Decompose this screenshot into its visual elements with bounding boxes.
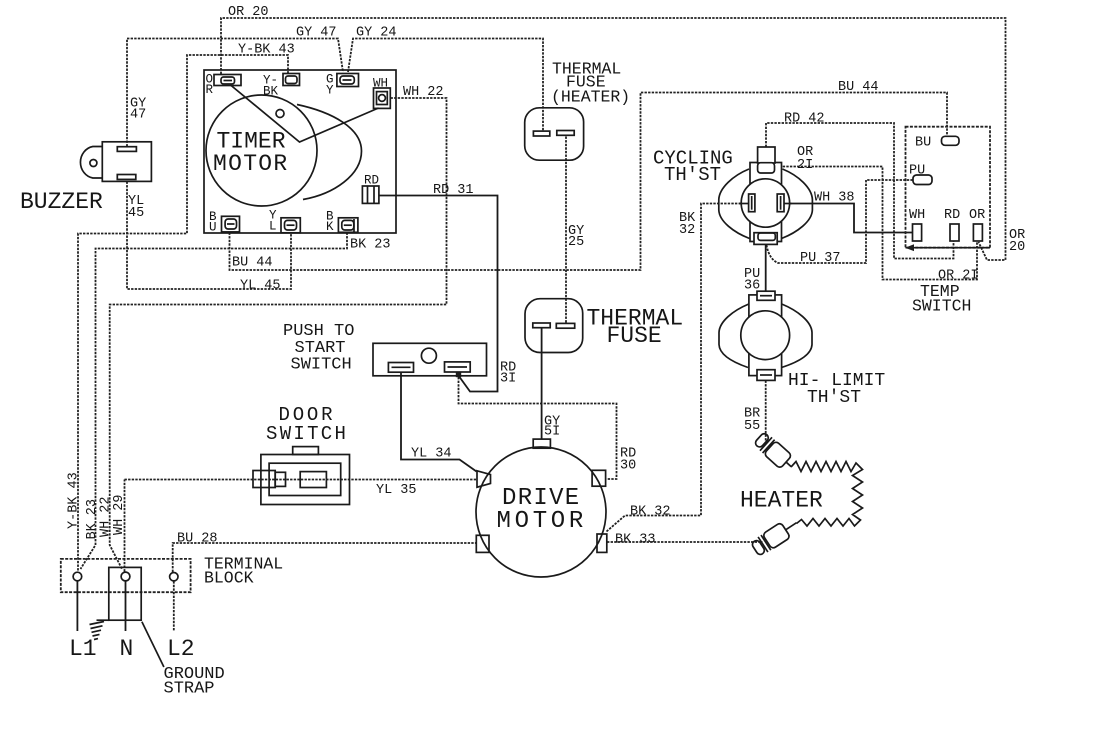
temp switch box bottom edge: [906, 247, 991, 249]
timer lever pivot contact: [276, 110, 284, 118]
wire Y-BK 43: [78, 55, 288, 572]
svg-text:L: L: [269, 220, 277, 234]
svg-text:YL 45: YL 45: [240, 279, 281, 294]
svg-text:HEATER: HEATER: [740, 488, 823, 514]
wire YL 45: [127, 182, 291, 290]
wire PU 36: [765, 245, 767, 291]
terminal N circle: [121, 572, 130, 581]
wire OR 21: [776, 167, 978, 280]
svg-text:25: 25: [568, 235, 584, 250]
svg-text:WH: WH: [373, 77, 388, 91]
ground symbol: [90, 620, 109, 639]
wire GY 25: [565, 137, 567, 324]
wire GY 51: [541, 328, 543, 439]
wire RD 31: [379, 196, 498, 392]
timer motor cam lobe: [297, 105, 362, 200]
svg-text:Y-BK 43: Y-BK 43: [67, 472, 82, 529]
thermal fuse (heater) body: [525, 108, 584, 160]
wire BK 23: [81, 233, 348, 570]
push to start switch: [373, 343, 487, 376]
wire RD 30: [459, 377, 617, 479]
thermal fuse body: [525, 299, 583, 353]
wire N stub: [125, 581, 127, 631]
svg-text:OR 20: OR 20: [228, 5, 269, 20]
svg-text:32: 32: [679, 223, 695, 238]
svg-text:WH 38: WH 38: [814, 191, 855, 206]
svg-text:BK 23: BK 23: [350, 238, 391, 253]
svg-text:YL 35: YL 35: [376, 483, 417, 498]
temp switch terminal OR: [973, 224, 982, 241]
wire BK 33: [607, 541, 763, 543]
wire YL 34: [401, 373, 477, 472]
cycling thermostat: [719, 147, 813, 244]
svg-text:SWITCH: SWITCH: [912, 297, 971, 316]
svg-text:RD: RD: [364, 174, 379, 188]
svg-text:47: 47: [130, 108, 146, 123]
svg-text:RD: RD: [944, 208, 960, 223]
svg-text:OR: OR: [969, 208, 985, 223]
temp switch terminal BU: [942, 136, 960, 145]
svg-text:WH 29: WH 29: [112, 494, 127, 535]
junction dot at push-to-start right terminal: [456, 372, 461, 377]
ground strap leader line: [142, 622, 164, 667]
svg-text:PU 37: PU 37: [800, 251, 841, 266]
svg-text:55: 55: [744, 419, 760, 434]
wire L1 stub: [76, 581, 78, 631]
svg-text:WH: WH: [909, 208, 925, 223]
wire BU 28: [173, 543, 477, 572]
wire WH 38: [784, 204, 913, 233]
svg-text:MOTOR: MOTOR: [497, 508, 588, 535]
svg-text:20: 20: [1009, 240, 1025, 255]
terminal L1 circle: [73, 572, 82, 581]
svg-text:BU: BU: [915, 136, 931, 151]
timer terminal Y-BK: [283, 74, 300, 86]
temp switch terminal RD: [950, 224, 959, 241]
svg-text:Y: Y: [326, 84, 334, 98]
terminal block box: [61, 559, 191, 592]
svg-text:YL 34: YL 34: [411, 447, 452, 462]
wire WH 29: [124, 480, 126, 572]
svg-text:(HEATER): (HEATER): [551, 88, 630, 107]
wire GY 24: [348, 39, 543, 131]
timer motor circle: [206, 95, 317, 206]
timer motor box: [204, 70, 396, 233]
svg-text:K: K: [326, 220, 334, 234]
timer terminal RD: [362, 186, 379, 203]
timer terminal BU: [222, 216, 240, 232]
svg-text:2I: 2I: [797, 158, 813, 173]
temp switch box bottom arrow: [905, 244, 914, 251]
svg-text:BUZZER: BUZZER: [20, 189, 103, 215]
svg-text:STRAP: STRAP: [164, 680, 215, 699]
svg-text:GY 47: GY 47: [296, 26, 337, 41]
wire RD 42: [766, 123, 954, 259]
heater element zigzag: [791, 462, 863, 527]
svg-text:BK 33: BK 33: [615, 533, 656, 548]
svg-text:5I: 5I: [544, 425, 560, 440]
svg-text:MOTOR: MOTOR: [213, 151, 289, 177]
svg-text:BU 44: BU 44: [838, 80, 879, 95]
wire L2 stub: [173, 581, 175, 631]
svg-text:36: 36: [744, 279, 760, 294]
drive motor: [476, 439, 607, 577]
svg-text:R: R: [206, 83, 214, 97]
svg-text:PU: PU: [909, 164, 925, 179]
wire GY 47: [127, 39, 343, 147]
temp switch box: [906, 127, 991, 248]
heater plug 1: [753, 431, 797, 473]
wire BK 32: [607, 204, 749, 532]
temp switch pin labels: [909, 136, 985, 224]
timer terminal YL: [281, 218, 300, 233]
svg-text:L2: L2: [167, 636, 195, 662]
svg-text:U: U: [209, 221, 217, 235]
svg-text:WH 22: WH 22: [403, 85, 444, 100]
svg-text:45: 45: [128, 206, 144, 221]
timer terminal WH: [374, 88, 391, 108]
svg-text:RD 42: RD 42: [784, 112, 825, 127]
svg-text:BK 32: BK 32: [630, 505, 671, 520]
svg-text:Y-BK 43: Y-BK 43: [238, 43, 295, 58]
wire WH 22: [110, 98, 447, 569]
svg-text:TH'ST: TH'ST: [664, 164, 721, 186]
timer switch lever: [231, 85, 379, 142]
svg-text:FUSE: FUSE: [607, 323, 662, 349]
timer terminal O-R: [214, 75, 241, 86]
timer pin labels: [206, 73, 389, 235]
wire PU 37: [767, 180, 914, 263]
svg-text:BU 28: BU 28: [177, 532, 218, 547]
door switch: [253, 447, 350, 505]
svg-text:SWITCH: SWITCH: [291, 356, 352, 375]
svg-text:30: 30: [620, 459, 636, 474]
wire BU 44: [230, 93, 948, 271]
svg-text:SWITCH: SWITCH: [266, 423, 348, 445]
svg-text:BLOCK: BLOCK: [204, 569, 254, 588]
temp switch terminal WH: [913, 224, 922, 241]
svg-text:TH'ST: TH'ST: [807, 388, 861, 408]
timer terminal G-Y: [337, 74, 359, 87]
ground strap box: [109, 567, 141, 620]
heater plug 2: [750, 515, 801, 557]
svg-text:RD 31: RD 31: [433, 183, 474, 198]
wire BR 55: [765, 381, 767, 446]
timer terminal BK: [338, 218, 358, 233]
svg-text:BU 44: BU 44: [232, 256, 273, 271]
wire OR 20: [221, 18, 1006, 260]
wire YL 35 / WH 29 through door switch: [125, 479, 478, 481]
terminal L2 circle: [170, 573, 178, 581]
svg-text:L1: L1: [69, 636, 97, 662]
svg-text:GY 24: GY 24: [356, 26, 397, 41]
hi-limit thermostat: [719, 291, 812, 380]
svg-text:BK: BK: [263, 85, 279, 99]
temp switch terminal PU: [913, 175, 932, 185]
svg-text:3I: 3I: [500, 372, 516, 387]
buzzer: [80, 142, 151, 182]
svg-text:N: N: [120, 636, 134, 662]
